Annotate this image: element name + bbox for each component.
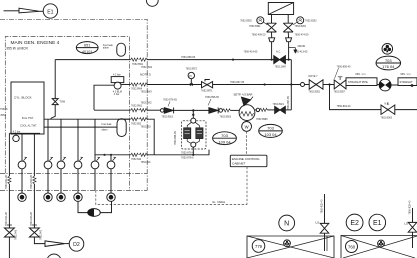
hose R5 a [131,153,139,156]
supply line R1 [55,59,130,61]
riser to main line [290,60,292,110]
svg-text:7652.8913: 7652.8913 [162,116,174,119]
svg-text:E2: E2 [350,220,359,227]
junction to engine pump unit [192,109,194,111]
svg-text:7652.842: 7652.842 [40,229,43,240]
svg-text:MAIN GEN. ENGINE 4: MAIN GEN. ENGINE 4 [11,40,60,46]
svg-text:7650-895-65: 7650-895-65 [205,96,219,99]
svg-text:7652.8: 7652.8 [0,108,8,111]
injector column 6 from return line [110,155,112,161]
pump suction line [94,85,114,110]
svg-text:7652.8052: 7652.8052 [309,91,321,94]
svg-text:7652.8W3: 7652.8W3 [141,91,153,94]
pipe to funnel E1 top left [4,10,20,12]
svg-text:7650-895-40: 7650-895-40 [337,65,351,68]
drain pump small [9,132,40,134]
engine control cabinet [230,155,267,167]
svg-text:7650-914-26: 7650-914-26 [5,212,8,226]
svg-text:NOTE 5: NOTE 5 [140,72,151,76]
svg-text:7652-876-6: 7652-876-6 [181,156,194,159]
svg-text:7652.8919: 7652.8919 [220,116,232,119]
svg-text:768: 768 [348,245,356,250]
node N [279,215,295,231]
svg-text:alarm: alarm [102,129,108,132]
temperature sensors row [18,193,115,201]
check valve 1 [160,109,164,113]
svg-text:7650-898-65: 7650-898-65 [181,56,196,59]
svg-text:7652.8972: 7652.8972 [186,68,198,71]
hose R1 b [139,58,147,61]
injection manifold line [44,118,130,120]
regulator actuator [242,97,251,105]
leak transfer pump oval [88,209,101,217]
svg-text:779: 779 [255,244,263,249]
tag oval 703/103 04 [259,124,283,137]
fuel pump 1 [184,128,191,139]
W instrument [242,122,252,132]
hose R2 a [131,83,139,86]
level switch symbol tank1 [320,223,329,228]
partial node circle top edge [146,0,158,6]
svg-text:7650-897-65: 7650-897-65 [230,81,245,84]
svg-text:alarm: alarm [103,47,109,50]
cable below cabinet [246,167,248,205]
svg-text:7652.8392: 7652.8392 [240,19,252,22]
partial node circle bottom [47,254,61,258]
svg-text:176 04: 176 04 [382,64,395,69]
vent cross valve right [287,15,289,24]
svg-text:STRAIGHT PIPE: STRAIGHT PIPE [348,80,368,84]
svg-text:955 l/h at MCR: 955 l/h at MCR [7,46,29,50]
svg-text:T.8W: T.8W [60,101,66,104]
svg-text:7652.8W2: 7652.8W2 [141,66,153,69]
svg-text:4 bar: 4 bar [114,93,120,96]
fuel pump 2 [196,128,203,139]
svg-text:7652-876-65: 7652-876-65 [163,99,177,102]
funnel strainer D2 [45,241,65,247]
svg-text:E1: E1 [373,220,382,227]
engine boundary bottom line 2 [0,189,147,191]
svg-text:7652.2W8: 7652.2W8 [275,66,287,69]
vent downcomer left [271,42,273,60]
level switch pipe tank2 [412,208,414,248]
svg-text:7650-895-65: 7650-895-65 [174,131,177,145]
svg-text:40101: 40101 [82,50,93,54]
injector column 1 [21,133,23,161]
svg-text:4.2 bar: 4.2 bar [113,74,121,77]
check valve 2 [209,108,218,114]
drain arrow [289,47,296,49]
drain elbow to D2 [34,237,45,244]
injector column 3 [60,119,62,161]
svg-text:ENGINE CONTROL: ENGINE CONTROL [232,157,260,161]
engine boundary bottom line 1 [0,172,147,174]
tag oval 703/176 04 [376,56,401,70]
vent funnel left [271,32,273,38]
svg-text:7652.8W2: 7652.8W2 [141,101,153,104]
fuel inlet downpipe from R1 [54,60,56,99]
mixing tank with diagonal [268,3,293,15]
inlet throttle valve [52,99,58,105]
engine boundary dashed box [5,37,129,191]
level switch pipe tank1 [324,194,326,251]
unit top dome [191,118,196,123]
flow meter [379,79,391,91]
svg-text:CABINET: CABINET [232,162,246,166]
svg-text:7650-933-40: 7650-933-40 [408,200,411,214]
svg-text:703: 703 [221,133,228,138]
sensor cable column dashed [94,169,96,191]
svg-text:7650-913-26: 7650-913-26 [30,175,33,189]
level transmitter right [297,17,304,24]
hose R3 b [139,109,147,112]
injector column stubs to sensors [21,169,23,193]
hose R4 b [139,118,147,121]
reducer [301,83,305,87]
svg-text:MIN. 1 m: MIN. 1 m [356,73,366,76]
hose column B [33,176,36,184]
svg-text:109 04: 109 04 [218,139,231,144]
svg-text:7652.8921: 7652.8921 [273,103,285,106]
injection pump circles row [18,161,115,169]
svg-text:4.2 bar: 4.2 bar [13,130,21,133]
unit outlet pipe [192,147,194,155]
svg-text:7652-876-6: 7652-876-6 [181,151,194,154]
svg-text:LS: LS [315,221,319,225]
node E2 [346,214,363,231]
svg-text:7652.8292: 7652.8292 [305,19,317,22]
svg-text:PI: PI [189,75,192,78]
hose R2 b [139,83,147,86]
svg-text:7652.8989: 7652.8989 [256,118,268,121]
svg-text:STRAIGHT: STRAIGHT [400,80,414,84]
svg-text:7652.8057: 7652.8057 [334,91,346,94]
valve 7652.8971 [202,82,213,88]
leak line R4 [120,118,131,120]
junction on R1 [232,59,234,61]
drain tank 2 [341,236,417,258]
hose column A [8,176,11,184]
hose R4 a [131,118,139,121]
svg-text:EL. CABLE: EL. CABLE [213,201,226,204]
tank 2 rosette [378,240,385,247]
collector loop to small pump [78,201,88,212]
funnel strainer E1 [19,8,40,13]
svg-text:Fuel leak.: Fuel leak. [102,123,113,126]
valve 7652.8921 [275,106,286,113]
svg-text:7650-409-20: 7650-409-20 [252,33,266,36]
vent funnel right [287,32,289,38]
tank 1 tag circle [252,240,265,253]
drain column A [8,133,10,176]
svg-text:7650-413-65: 7650-413-65 [294,50,308,53]
hose regulator outlet [260,108,268,111]
pressure line R3 [94,109,131,111]
hose R1 a [131,58,139,61]
svg-text:N: N [284,220,289,227]
unit inlet pipe [192,110,194,118]
vent cross valve left [271,15,273,24]
svg-text:7652.8063: 7652.8063 [381,117,393,120]
unit outlet merge [187,139,191,144]
svg-text:7652.8W1: 7652.8W1 [131,105,143,108]
svg-text:SETP. 4.5 BAR: SETP. 4.5 BAR [234,92,253,96]
svg-text:CYL. BLOCK: CYL. BLOCK [14,96,32,100]
unit inlet split [187,122,191,127]
junction dots R2 [264,83,266,85]
hose R5 b [139,153,147,156]
stop valve B [29,228,39,237]
signal to cabinet [246,131,248,155]
cylinder block [11,82,44,134]
valve 7652.8052 [309,80,323,89]
svg-text:E1: E1 [47,9,53,15]
return line R5 [95,154,131,156]
node E1 bottom [369,214,386,231]
valve 7652.8057 [334,80,346,89]
svg-text:703: 703 [385,58,392,63]
svg-text:651: 651 [84,44,90,48]
tank 1 rosette [284,240,291,247]
svg-text:7650-414-65: 7650-414-65 [244,50,258,53]
svg-text:D2: D2 [73,242,80,248]
tag oval 651/40101 [76,42,98,54]
svg-text:7650-932-40: 7650-932-40 [320,199,323,213]
svg-text:7650-474-50: 7650-474-50 [295,33,309,36]
svg-text:COOL.AL.TWT.: COOL.AL.TWT. [20,125,37,128]
engine driven pump unit box [182,121,207,149]
svg-text:7650-894-40: 7650-894-40 [337,105,351,108]
svg-text:MIN. 1 m: MIN. 1 m [401,73,411,76]
stop valve A [4,228,14,237]
svg-text:7652.853: 7652.853 [141,125,152,128]
svg-text:.8952: .8952 [0,114,7,117]
tag rosette circle [382,44,393,55]
svg-text:7652.8971: 7652.8971 [201,90,213,93]
leak manifold line to collector [44,126,117,128]
svg-text:NOTE 7: NOTE 7 [309,75,319,78]
svg-text:N.C.: N.C. [276,51,281,54]
level transmitter left [257,17,264,24]
sludge tank 1 [247,236,334,258]
svg-text:7652.843: 7652.843 [15,229,18,240]
leak collecting vessel top [117,43,126,56]
svg-text:N.C.: N.C. [385,102,390,105]
unit bottom dome [191,142,196,147]
injector column 4 [77,119,79,161]
svg-text:7652.8391: 7652.8391 [249,25,261,28]
tag oval 703/109 04 [213,132,237,145]
svg-text:7650-913-26: 7650-913-26 [30,212,33,226]
leak collecting vessel [117,119,126,137]
vent downcomer right [288,42,290,60]
svg-text:7652.8291: 7652.8291 [295,25,307,28]
bypass branch down [330,85,382,110]
node D2 [69,237,84,252]
hose R3 a [131,109,139,112]
svg-text:103 04: 103 04 [264,132,277,137]
node E1 top [43,4,57,18]
svg-text:DRAIN: DRAIN [298,45,306,48]
injector vent flags [24,157,116,160]
level switch symbol tank2 [408,222,417,227]
svg-text:703: 703 [267,126,274,131]
svg-text:7650-914-26: 7650-914-26 [5,175,8,189]
svg-text:7652.841: 7652.841 [141,161,152,164]
regulator outlet fitting [256,108,259,111]
main delivery line right [291,84,300,86]
system boundary dash-dot top [0,19,147,190]
injector column 2 [47,119,49,161]
return line R2 [121,84,131,86]
circulating pump [111,77,124,83]
tank 2 tag circle [346,241,358,253]
hose R3 c [223,109,231,112]
svg-text:7650-897-65: 7650-897-65 [287,96,290,110]
drain column B [33,134,35,176]
injector column 5 [94,119,96,161]
svg-text:W: W [245,124,249,129]
svg-text:B.AL.TWT.: B.AL.TWT. [22,117,34,120]
